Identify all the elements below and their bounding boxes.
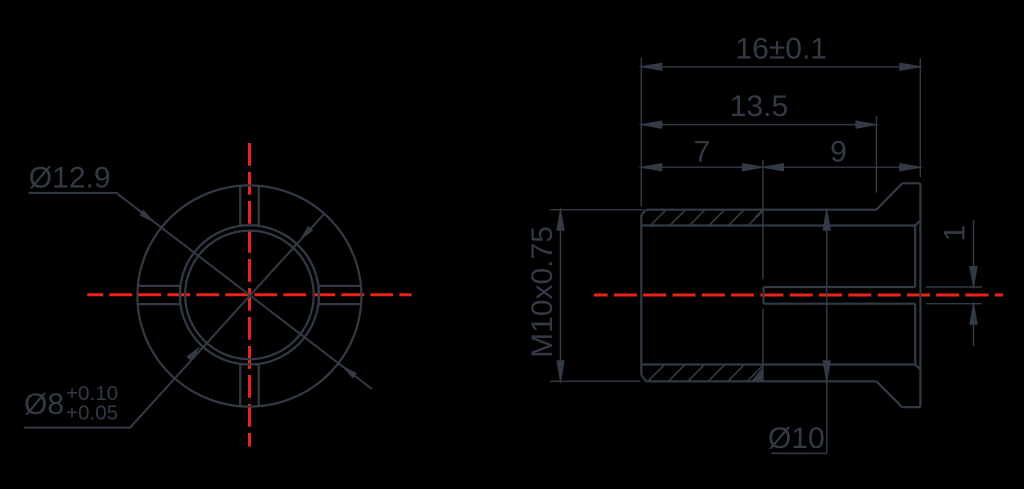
svg-text:7: 7 [694, 136, 711, 169]
centerline horizontal (left view) [87, 293, 411, 296]
dim 1 line lower [973, 304, 975, 346]
centerline horizontal (right view) [594, 294, 1003, 297]
arrow dim9 left [760, 163, 784, 172]
arrow dim9 right [899, 163, 923, 172]
M10 ext top [550, 209, 644, 211]
dim 1 ext bottom [926, 303, 982, 305]
arrow dia8 NE [296, 226, 313, 244]
svg-text:1: 1 [938, 225, 971, 242]
small hole box [764, 287, 916, 304]
dim line 7/9 [641, 166, 920, 168]
bore chamfer circle [185, 231, 314, 360]
chamfer top-left [641, 210, 646, 215]
dia10 underline [772, 452, 827, 454]
M10 ext bottom [550, 380, 641, 382]
ext line 13.5 (x=876) [875, 116, 877, 193]
bore floor top [914, 226, 916, 288]
arrow M10 top [556, 206, 565, 230]
left face [640, 215, 642, 375]
ext line 7/9 (x=763) lower [762, 308, 764, 380]
slot south [240, 364, 259, 406]
thread hatch bottom band [648, 365, 763, 382]
flange top [902, 182, 920, 184]
arrow dia8 SW [186, 344, 203, 362]
arrow M10 bottom [556, 360, 565, 384]
arrow dim13.5 left [638, 120, 662, 129]
bore circle (dia 8) [180, 225, 319, 364]
slot north [240, 186, 259, 226]
arrow dia12.9 SE [339, 363, 357, 379]
arrow dim7 right [742, 163, 766, 172]
flange chamfer bottom [876, 381, 902, 407]
ext line 7/9 (x=763) upper [762, 160, 764, 279]
chamfer bottom-left [641, 375, 646, 381]
slot west [138, 286, 181, 304]
svg-text:Ø8: Ø8 [24, 388, 64, 421]
dim line 16 [641, 66, 920, 68]
bore bottom line [641, 363, 915, 365]
dim 1 ext top [926, 286, 982, 288]
arrow dim16 right [899, 63, 923, 72]
M10 dim line [560, 210, 562, 382]
ext line right (x=920) [919, 58, 921, 177]
arrow dia12.9 NW [139, 210, 157, 226]
ext line left (x=641) [640, 58, 642, 207]
thread hatch top band [650, 210, 763, 226]
svg-text:Ø12.9: Ø12.9 [29, 162, 111, 195]
bore end chamfer top [915, 221, 919, 225]
arrow dim1 top [969, 266, 978, 290]
svg-text:+0.05: +0.05 [66, 402, 118, 425]
arrow dim16 left [638, 63, 662, 72]
arrow dia10 top [822, 206, 831, 230]
arrow dim7 left [638, 163, 662, 172]
bore floor bottom [914, 304, 916, 365]
flange bottom [902, 406, 920, 408]
arrow dim13.5 right [855, 120, 879, 129]
slot east [319, 286, 362, 304]
svg-text:13.5: 13.5 [730, 90, 788, 123]
leader line dia 12.9 (NW-SE diagonal) [29, 193, 372, 389]
outer top line [646, 209, 876, 211]
dia10 leader vertical [826, 210, 828, 454]
outer circle (flange dia 12.9) [137, 185, 361, 406]
leader line dia 8 (SW-NE diagonal) [24, 214, 325, 428]
centerline vertical (left view) [248, 143, 251, 447]
bore end chamfer bottom [915, 365, 919, 369]
arrow dia10 bottom [822, 360, 831, 384]
dim line 13.5 [641, 124, 876, 126]
outer bottom line [646, 380, 876, 382]
svg-text:Ø10: Ø10 [768, 422, 825, 455]
right face [919, 183, 921, 407]
svg-text:M10x0.75: M10x0.75 [526, 226, 559, 358]
svg-text:9: 9 [830, 136, 847, 169]
dim 1 line upper [973, 220, 975, 287]
arrow dim1 bottom [969, 300, 978, 324]
flange chamfer top [876, 183, 902, 209]
thread runout fill bottom [752, 368, 763, 381]
svg-text:16±0.1: 16±0.1 [735, 33, 827, 66]
bore top line [641, 224, 915, 226]
